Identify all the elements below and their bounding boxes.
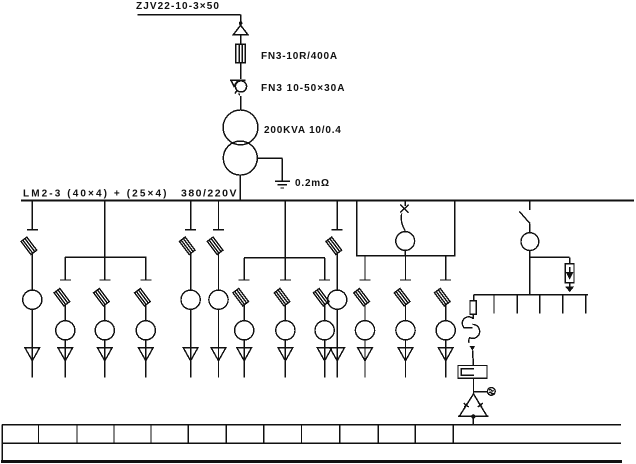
isolating tick feeder F2 — [60, 279, 71, 281]
junction dot welder to table — [471, 414, 475, 418]
kWh meter feeder F4 — [136, 321, 155, 340]
kWh meter feeder F11 — [355, 321, 374, 340]
comb busbar outlet tooth 5 — [585, 295, 587, 314]
load arrow feeder F3 — [97, 348, 112, 378]
circuit breaker QF (cross mark) — [400, 205, 408, 231]
title strip cell divider 9 — [339, 425, 341, 444]
wire neutral to ground vertical — [281, 158, 283, 181]
kWh meter feeder F3 — [95, 321, 114, 340]
wire tap to indicator — [474, 391, 488, 393]
left sub-bus W2 — [65, 256, 147, 258]
wire feeder F7 meter to load — [243, 340, 245, 348]
contact arrowhead on welder lead — [469, 346, 475, 351]
load arrow feeder F13 — [438, 348, 453, 378]
load arrow feeder F9 — [317, 348, 332, 378]
load arrow feeder F11 — [358, 348, 373, 378]
wire feeder F11 drop from sub-bus — [364, 256, 366, 280]
svg-text:LM2-3 (40×4) + (25×4): LM2-3 (40×4) + (25×4) — [23, 189, 169, 200]
wire feeder F6 meter to load — [218, 309, 220, 348]
load arrow feeder F2 — [58, 348, 73, 378]
wire feeder F5 drop from bus — [190, 201, 192, 230]
wire right meter to comb busbar — [529, 251, 531, 295]
svg-text:FN3 10-50×30A: FN3 10-50×30A — [261, 83, 345, 94]
transformer T1 secondary winding — [223, 141, 257, 175]
isolating tick feeder F8 — [280, 279, 291, 281]
load-break switch QL (FN3) — [230, 80, 246, 95]
isolating tick feeder F9 — [319, 279, 330, 281]
fuse FU2 welder branch — [470, 301, 476, 315]
plug connector (upper hook) — [462, 317, 473, 328]
kWh meter feeder F10 — [328, 290, 347, 309]
fuse feeder F12 — [394, 288, 410, 305]
kWh meter in metering box — [396, 232, 415, 251]
isolating tick feeder F3 — [99, 279, 110, 281]
isolating tick feeder F13 — [440, 279, 451, 281]
wire feeder F12 meter to load — [405, 340, 407, 348]
surge arrester FV — [565, 264, 574, 291]
kWh meter feeder F13 — [436, 321, 455, 340]
svg-text:0.2mΩ: 0.2mΩ — [295, 178, 330, 189]
title strip cell divider 3 — [113, 425, 115, 444]
title strip middle border — [2, 442, 621, 444]
wire incoming overhead line horizontal — [138, 14, 241, 16]
kWh meter feeder F1 — [23, 290, 42, 309]
kWh meter feeder F7 — [235, 321, 254, 340]
middle sub-bus W3 — [244, 257, 325, 259]
comb busbar outlet tooth 4 — [562, 295, 564, 314]
wire box meter to box bottom — [404, 250, 406, 255]
load arrow feeder F5 — [183, 348, 198, 378]
wire feeder F4 drop from sub-bus — [145, 257, 147, 280]
load arrow feeder F7 — [237, 348, 252, 378]
fuse feeder F11 — [354, 288, 370, 305]
indicator circle with AC squiggle — [487, 388, 495, 396]
fuse feeder F13 — [434, 288, 450, 305]
wire feeder F7 drop from sub-bus — [243, 258, 245, 280]
cable terminal head (triangle) — [233, 25, 247, 34]
title strip cell divider 2 — [76, 425, 78, 444]
wire feeder F2 meter to load — [64, 340, 66, 348]
comb busbar outlet tooth 3 — [539, 295, 541, 314]
wire feeder F8 meter to load — [284, 340, 286, 348]
fuse feeder F6 — [207, 237, 223, 254]
load arrow feeder F12 — [398, 348, 413, 378]
wire feeder F2 fuse to meter — [64, 304, 66, 321]
socket connector (lower hook) — [469, 324, 480, 343]
wire fuse FU1 to load switch QL — [240, 63, 242, 79]
isolating tick feeder F6 — [213, 229, 224, 231]
title strip cell divider 8 — [301, 425, 303, 444]
svg-text:FN3-10R/400A: FN3-10R/400A — [261, 51, 338, 62]
title strip top border — [2, 424, 621, 426]
load arrow feeder F4 — [138, 348, 153, 378]
wire riser to middle sub-bus — [284, 201, 286, 258]
kWh meter feeder F5 — [181, 290, 200, 309]
kWh meter feeder F9 — [315, 321, 334, 340]
fuse feeder F9 — [313, 288, 329, 305]
wire feeder F9 meter to load — [324, 340, 326, 348]
wire feeder F1 fuse to meter — [31, 253, 33, 291]
comb busbar outlet tooth 1 — [493, 295, 495, 314]
ground (earth electrode) — [275, 181, 290, 188]
wire feeder F8 drop from sub-bus — [284, 258, 286, 280]
wire incoming drop — [240, 15, 242, 23]
wire feeder F13 meter to load — [445, 340, 447, 348]
wire feeder F4 fuse to meter — [145, 304, 147, 321]
wire feeder F2 drop from sub-bus — [64, 257, 66, 280]
title strip cell divider 10 — [377, 425, 379, 444]
svg-text:ZJV22-10-3×50: ZJV22-10-3×50 — [136, 1, 220, 12]
fuse feeder F3 — [94, 288, 110, 305]
fuse feeder F2 — [54, 288, 70, 305]
title strip cell divider 6 — [225, 425, 227, 444]
wire feeder F3 meter to load — [104, 340, 106, 348]
kWh meter right feeder — [521, 233, 539, 251]
kWh meter feeder F2 — [56, 321, 75, 340]
svg-text:200KVA 10/0.4: 200KVA 10/0.4 — [264, 125, 342, 136]
wire box breaker top lead — [404, 201, 406, 206]
junction dot cable terminal — [239, 21, 243, 25]
isolating tick feeder F11 — [360, 279, 371, 281]
fuse feeder F1 — [21, 237, 37, 254]
main bus W1 380/220V — [21, 199, 634, 201]
load arrow feeder F10 — [330, 348, 345, 378]
wire feeder F3 drop from sub-bus — [104, 257, 106, 280]
fuse feeder F10 — [326, 237, 342, 254]
kWh meter feeder F12 — [396, 321, 415, 340]
isolating tick feeder F5 — [185, 229, 196, 231]
wire fuse FU2 to plug — [472, 314, 474, 319]
welder control box (meter) — [458, 366, 487, 379]
title strip left border — [1, 425, 3, 462]
welding transformer delta winding — [458, 394, 489, 416]
title strip bottom border (thick) — [1, 460, 622, 463]
wire feeder F10 meter to load — [336, 309, 338, 348]
wire feeder F13 fuse to meter — [445, 304, 447, 321]
fuse feeder F4 — [135, 288, 151, 305]
wire riser to left sub-bus — [104, 201, 106, 258]
comb busbar outlet tooth 2 — [516, 295, 518, 314]
comb distribution busbar W4 — [474, 294, 588, 296]
knife switch QS right feeder — [519, 212, 530, 224]
title strip cell divider 4 — [150, 425, 152, 444]
fuse FU1 (RN type) — [236, 44, 245, 62]
wire feeder F13 drop from sub-bus — [445, 256, 447, 280]
fuse feeder F8 — [274, 288, 290, 305]
wire welder to title strip — [472, 416, 474, 424]
wire feeder F7 fuse to meter — [243, 304, 245, 321]
kWh meter feeder F6 — [209, 290, 228, 309]
wire switch QL to transformer T1 — [240, 96, 242, 110]
isolating tick feeder F4 — [140, 279, 151, 281]
kWh meter feeder F8 — [276, 321, 295, 340]
wire comb bus left end down — [473, 295, 475, 301]
wire feeder F9 drop from sub-bus — [324, 258, 326, 280]
wire feeder F10 fuse to meter — [336, 253, 338, 291]
title strip cell divider 12 — [452, 425, 454, 444]
fuse feeder F5 — [179, 237, 195, 254]
wire feeder F5 meter to load — [190, 309, 192, 348]
wire plug to meter box — [472, 351, 475, 366]
transformer T1 primary winding — [223, 110, 258, 145]
wire feeder F1 meter to load — [31, 309, 33, 348]
wire feeder F1 drop from bus — [31, 201, 33, 230]
isolating tick feeder F1 — [27, 229, 38, 231]
wire transformer T1 to main bus — [239, 175, 241, 200]
load arrow feeder F6 — [211, 348, 226, 378]
load arrow feeder F1 — [25, 348, 40, 378]
wire box to welder transformer — [473, 378, 475, 394]
load arrow feeder F8 — [278, 348, 293, 378]
wire feeder F8 fuse to meter — [284, 304, 286, 321]
wire feeder F11 meter to load — [364, 340, 366, 348]
wire branch to surge arrester horizontal — [530, 256, 570, 258]
isolating tick feeder F7 — [239, 279, 250, 281]
wire feeder F5 fuse to meter — [190, 253, 192, 291]
title strip cell divider 1 — [38, 425, 40, 444]
wire feeder F6 fuse to meter — [218, 253, 220, 291]
wire feeder F10 drop from bus — [336, 201, 338, 230]
wire feeder F9 fuse to meter — [324, 304, 326, 321]
svg-text:380/220V: 380/220V — [181, 188, 238, 200]
wire feeder F12 fuse to meter — [405, 304, 407, 321]
fuse feeder F7 — [233, 288, 249, 305]
isolating tick feeder F12 — [400, 279, 411, 281]
wire cable head to fuse FU1 — [240, 35, 242, 45]
wire branch to surge arrester vertical — [569, 257, 571, 263]
title strip cell divider 7 — [263, 425, 265, 444]
title strip cell divider 5 — [187, 425, 189, 444]
wire neutral to ground horizontal — [257, 157, 282, 159]
wire switch to right meter — [529, 223, 531, 232]
wire feeder F11 fuse to meter — [364, 304, 366, 321]
wire feeder F12 drop from sub-bus — [405, 256, 407, 280]
metering cabinet box — [357, 200, 455, 255]
wire feeder F6 drop from bus — [218, 201, 220, 230]
isolating tick feeder F10 — [332, 229, 343, 231]
wire right feeder drop from bus — [529, 201, 531, 211]
title strip cell divider 11 — [414, 425, 416, 444]
wire feeder F3 fuse to meter — [104, 304, 106, 321]
wire feeder F4 meter to load — [145, 340, 147, 348]
